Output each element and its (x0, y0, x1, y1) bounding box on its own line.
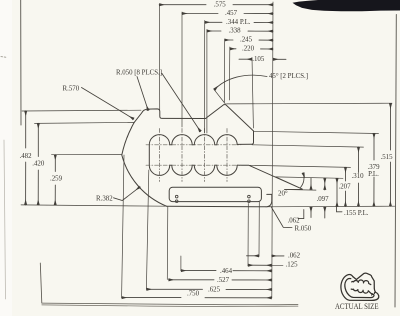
svg-text:R.382: R.382 (96, 195, 113, 202)
page border left top (20, 0, 22, 125)
svg-text:.125: .125 (285, 262, 298, 269)
centerline lobe 3 (204, 129, 206, 182)
extension vertical for .344 (204, 21, 206, 134)
dimension .245 (224, 39, 273, 41)
part outline: plateau and 45 deg peak (134, 105, 253, 131)
svg-text:.062: .062 (288, 253, 301, 260)
svg-text:R.570: R.570 (63, 85, 80, 92)
extension vertical for .220 (228, 47, 230, 100)
leader R.570 (82, 88, 134, 120)
dimension .338 (207, 30, 273, 32)
dimension .457 (182, 13, 273, 15)
extension vertical for .105 (252, 58, 253, 129)
svg-text:.062: .062 (287, 217, 300, 224)
stray mark left edge (1, 57, 7, 58)
dimension .097 (310, 178, 312, 190)
leader R.050 second (137, 77, 148, 111)
bottom extension x=146.5 (146, 170, 148, 289)
dimension .625 (146, 288, 271, 290)
dimension .464 (181, 270, 272, 272)
leader R.050 8 plcs (162, 74, 201, 132)
dimension .344 P.L. (205, 21, 273, 23)
scan black band top right (293, 0, 400, 11)
svg-text:.259: .259 (50, 176, 63, 183)
20 deg reference line (285, 188, 303, 190)
svg-text:.344 P.L.: .344 P.L. (226, 19, 251, 26)
centerline lobe 4 (226, 129, 228, 182)
part outline: left arc R.570/R.382 (122, 122, 167, 206)
right extension y=165.3 (250, 165, 351, 167)
svg-text:.155 P.L.: .155 P.L. (344, 210, 369, 217)
svg-text:.097: .097 (316, 196, 329, 203)
leader R.050 bottom right (271, 207, 292, 228)
peak right slope extension (45 deg reference) (214, 89, 225, 104)
part outline: bottom scallops (149, 165, 237, 175)
part outline: bottom slot (169, 187, 261, 201)
left extension line y=111 (22, 109, 141, 112)
centerline lobe 1 (159, 129, 161, 182)
svg-text:ACTUAL SIZE: ACTUAL SIZE (335, 302, 379, 311)
right extension y=131 (254, 131, 379, 133)
extension vertical for .245 (apex) (223, 42, 225, 103)
leader R.382 (114, 187, 141, 201)
slot weep circles (175, 195, 178, 198)
page border right (395, 15, 396, 308)
bottom extension x=122 (122, 155, 124, 297)
baseline extension left (21, 205, 167, 206)
left extension line y=154.5 (52, 154, 122, 156)
dimension .105 outside arrows (239, 58, 252, 60)
bottom extension x=181 (180, 256, 182, 271)
centerline horizontal bottom (146, 164, 241, 166)
dimension .515 (389, 103, 391, 206)
paper edge left faint (4, 140, 6, 299)
dimension .062 bottom outside arrows (247, 255, 260, 257)
dimension .062 right outside arrows (324, 178, 326, 190)
centerline lobe 2 (181, 129, 183, 182)
svg-text:.207: .207 (338, 184, 351, 191)
svg-text:.420: .420 (32, 161, 45, 168)
dimension .420 (37, 123, 39, 205)
svg-text:P.L.: P.L. (368, 171, 379, 178)
extension vertical for .575 (158, 5, 160, 110)
extension vertical for .457 (lobe2 CL up) (181, 12, 183, 127)
svg-text:.457: .457 (225, 10, 238, 17)
bottom extension x=248 (247, 204, 249, 267)
svg-text:.105: .105 (252, 56, 265, 63)
svg-text:.245: .245 (240, 37, 253, 44)
dimension .750 (122, 297, 272, 299)
part outline: left vertical of lobe 1 (148, 145, 150, 165)
dimension .575 (159, 4, 273, 6)
baseline extension right (266, 205, 396, 208)
svg-text:R.050 [8 PLCS.]: R.050 [8 PLCS.] (116, 70, 162, 77)
svg-text:.482: .482 (19, 153, 32, 160)
part outline: bottom edge and right bottom corner R.050 (167, 194, 272, 207)
part outline: right vertical below peak (237, 131, 253, 144)
dimension .379 P.L. (373, 133, 375, 206)
svg-text:.310: .310 (351, 173, 364, 180)
dimension .125 bottom (248, 264, 272, 266)
svg-text:.515: .515 (380, 154, 393, 161)
right extension y=189.5 tip (285, 189, 317, 192)
extension vertical for .338 (206, 30, 208, 134)
right extension y=107 from apex (227, 102, 393, 105)
svg-text:.464: .464 (220, 268, 233, 275)
dimension .482 (25, 111, 27, 205)
leader .155 (337, 207, 343, 212)
dimension .310 (357, 147, 359, 206)
extension vertical datum right x=273 (272, 2, 273, 298)
actual size mini part (341, 273, 379, 300)
dimension .527 (169, 279, 272, 281)
page corner piece bottom left (40, 263, 42, 303)
svg-text:.338: .338 (228, 28, 241, 35)
part outline: top scallops R.050 8 plcs (149, 135, 237, 145)
bottom extension x=259 (258, 202, 260, 257)
right extension y=145 (252, 145, 364, 147)
page border bottom (42, 303, 298, 305)
left extension line y=123 (35, 122, 135, 123)
part outline: right tab 20 deg wedge (237, 165, 302, 189)
dimension .207 (344, 167, 346, 206)
leader .062 right (298, 210, 304, 219)
leader 45 deg 2 plcs (214, 75, 267, 90)
dimension .259 (54, 155, 56, 205)
svg-text:.379: .379 (367, 164, 380, 171)
20 deg angle arc (301, 173, 304, 188)
svg-text:.220: .220 (242, 45, 255, 52)
svg-text:.575: .575 (214, 1, 227, 8)
svg-text:.625: .625 (208, 287, 221, 294)
right extension y=176.9 (276, 177, 344, 178)
centerline horizontal top (146, 144, 241, 146)
svg-text:20°: 20° (278, 190, 288, 197)
svg-text:.750: .750 (187, 291, 200, 298)
svg-text:R.050: R.050 (295, 226, 312, 233)
dimension .155 P.L. (336, 178, 338, 206)
bottom extension x=167.5 (166, 207, 169, 280)
dimension .220 (230, 48, 273, 50)
svg-text:.527: .527 (217, 277, 230, 284)
svg-text:45° [2 PLCS.]: 45° [2 PLCS.] (269, 73, 308, 80)
